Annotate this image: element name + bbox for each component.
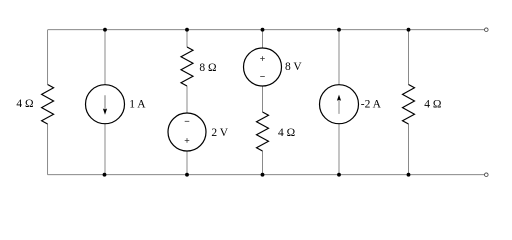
- terminal top right: [485, 28, 489, 32]
- wire branch R8-V2: [186, 30, 188, 175]
- wire bottom rail: [48, 174, 485, 176]
- node dot top R8: [185, 28, 189, 32]
- plus sign of V8: [260, 56, 265, 61]
- node dot bottom R4 right: [407, 173, 411, 177]
- resistor 8ohm: [181, 47, 193, 86]
- svg-text:8 Ω: 8 Ω: [199, 62, 216, 74]
- resistor 4ohm right: [403, 85, 415, 124]
- minus sign of V2: [185, 120, 190, 122]
- svg-text:-2 A: -2 A: [361, 98, 382, 110]
- svg-text:1 A: 1 A: [129, 98, 146, 110]
- node dot bottom R4 middle: [261, 173, 265, 177]
- plus sign of V2: [185, 138, 190, 143]
- arrow of I2 (up): [338, 99, 340, 114]
- svg-text:4 Ω: 4 Ω: [16, 98, 33, 110]
- minus sign of V8: [260, 76, 265, 78]
- resistor 4ohm left: [42, 85, 54, 124]
- node dot top I2: [337, 28, 341, 32]
- node dot bottom V2: [185, 173, 189, 177]
- wire left branch: [47, 30, 49, 175]
- terminal bottom right: [485, 173, 489, 177]
- voltage source V8 8V: [244, 48, 282, 86]
- wire top rail: [48, 29, 485, 31]
- node dot top I1: [103, 28, 107, 32]
- node dot bottom I1: [103, 173, 107, 177]
- node dot top V8: [261, 28, 265, 32]
- svg-text:2 V: 2 V: [211, 127, 228, 139]
- node dot bottom I2: [337, 173, 341, 177]
- node dot top R4 right: [407, 28, 411, 32]
- wire branch I2: [338, 30, 340, 175]
- arrow of I1 (down): [104, 95, 106, 109]
- svg-text:8 V: 8 V: [285, 61, 302, 73]
- wire branch I1: [104, 30, 106, 175]
- voltage source V2 2V: [168, 113, 206, 151]
- current source I2 -2A: [320, 85, 359, 124]
- svg-text:4 Ω: 4 Ω: [278, 127, 295, 139]
- resistor 4ohm middle: [257, 112, 269, 151]
- current source I1 1A: [86, 85, 125, 124]
- wire branch V8-R4: [262, 30, 264, 175]
- svg-text:4 Ω: 4 Ω: [424, 98, 441, 110]
- wire branch R4 right: [408, 30, 410, 175]
